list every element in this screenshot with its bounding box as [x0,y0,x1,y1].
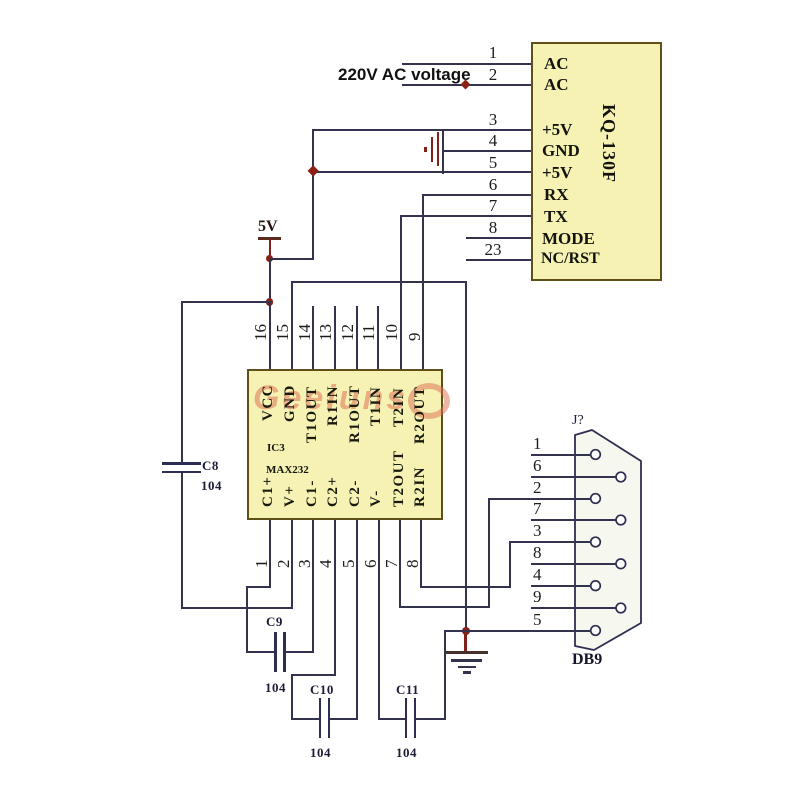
wire T2OUT riser to DB9 pin2 row [488,498,490,609]
pin label GND (pin 4) [542,142,580,159]
IC label R1IN (pin13, rotated) [326,385,341,426]
pin number 3 (MAX232 bottom, rotated) [296,560,313,569]
wire to C10 left plate [291,718,319,720]
wire MAX232 pin 13 stub [334,306,336,369]
label KQ-130F (rotated) [600,104,618,183]
pin label RX (pin 6) [544,186,569,203]
label C11 [396,683,419,696]
ground symbol bar 1 [445,651,488,654]
wire R2IN riser to DB9 pin3 row [509,541,511,588]
IC label C1- (pin3, rotated) [305,479,320,507]
junction diamond on AC pin 2 wire [461,80,471,90]
pin number 6 (MAX232 bottom, rotated) [362,560,379,569]
wire C11 right plate to riser [416,718,446,720]
IC part number MAX232 [266,465,309,476]
wire GND rail horizontal (pin15 to right) [291,281,467,283]
pin label AC (pin 2) [544,76,569,93]
DB9 pin number 5 [533,611,542,628]
pin label TX (pin 7) [544,208,568,225]
capacitor C11 left plate [405,698,408,738]
wire C11 riser up to ground node [444,631,446,720]
capacitor C10 left plate [319,698,322,738]
wire KQ pin 1 (AC) [402,63,531,65]
capacitor C11 right plate [414,698,417,738]
wire DB9 pin 8 stub [531,563,616,565]
pin number 13 (MAX232, rotated) [317,324,334,341]
IC label R1OUT (pin12, rotated) [348,385,363,443]
pin number 5 (KQ-130F) [482,154,504,171]
IC label VCC (pin16, rotated) [261,384,276,421]
label C10 [310,683,334,696]
pin number 7 (MAX232 bottom, rotated) [383,560,400,569]
IC reference IC3 [267,443,285,454]
ground symbol stem [464,630,466,651]
IC label C2+ (pin4, rotated) [326,476,341,507]
pin number 5 (MAX232 bottom, rotated) [340,560,357,569]
pin label +5V (pin 3) [542,121,572,138]
wire 5V node to loop (horizontal) [269,258,313,260]
wire DB9 pin 4 stub [531,585,591,587]
label C10 value 104 [310,746,331,759]
wire C10 right plate to pin 5 [330,718,357,720]
IC label GND (pin15, rotated) [283,384,298,422]
wire KQ pin 4 (GND) [442,150,531,152]
wire DB9 pin 3 stub (joins R2IN riser) [509,541,592,543]
ground symbol (rotated, on GND pin 4) bar medium [437,132,439,166]
wire MAX232 pin 14 stub [312,306,314,369]
IC U1 MAX232 body [247,369,444,520]
wire MAX232 pin 8 down (R2IN) [420,520,422,588]
connector J? DB9 shell and pin circles [568,424,650,656]
pin number 4 (MAX232 bottom, rotated) [317,560,334,569]
wire DB9 pin 1 stub [531,454,591,456]
DB9 pin number 2 [533,479,542,496]
IC U2 KQ-130F module body [531,42,662,281]
connector name DB9 [572,652,602,668]
DB9 pin number 9 [533,588,542,605]
label C8 [202,459,219,472]
wire pin4 down to C10 row [291,674,293,720]
wire KQ pin 8 (MODE) [466,237,531,239]
wire DB9 pin 9 stub [531,607,616,609]
wire C9 right plate to pin 3 [286,651,314,653]
power symbol 5V text [258,219,278,235]
pin number 12 (MAX232, rotated) [339,324,356,341]
pin number 6 (KQ-130F) [482,176,504,193]
pin number 2 (MAX232 bottom, rotated) [275,560,292,569]
wire MAX232 pin 16 stub up [269,301,271,369]
power symbol 5V underline bar [258,237,281,240]
wire DB9 pin 2 stub (joins T2OUT riser) [488,498,591,500]
IC label C2- (pin5, rotated) [348,479,363,507]
wire DB9 pin 5 stub (ground row) [444,630,591,632]
watermark red ring [408,383,450,419]
pin label NC/RST (pin 23) [541,251,600,267]
wire T2OUT run right [399,606,491,608]
wire DB9 pin 7 stub [531,519,616,521]
wire MAX232 pin 12 stub [356,306,358,369]
DB9 pin number 7 [533,500,542,517]
watermark red text [253,381,408,415]
wire MAX232 pin 11 stub [377,306,379,369]
wire TX net (KQ pin7 to MAX232 pin 10) [400,215,402,369]
label C11 value 104 [396,746,417,759]
pin number 14 (MAX232, rotated) [296,324,313,341]
IC label R2OUT (pin9, rotated) [413,386,428,444]
wire MAX232 pin 7 down (T2OUT) [399,520,401,609]
wire 5V node down to VCC branch [269,258,271,303]
pin number 16 (MAX232, rotated) [252,324,269,341]
pin number 11 (MAX232, rotated) [360,325,377,341]
wire GND rail vertical (x=466) [465,281,467,632]
pin number 4 (KQ-130F) [482,132,504,149]
capacitor C9 right plate [283,632,286,672]
wire KQ pin 7 (TX) [400,215,532,217]
IC label V+ (pin2, rotated) [283,485,298,507]
wire C8 branch lower [181,473,183,609]
ground symbol bar 2 [451,659,483,662]
pin label +5V (pin 5) [542,164,572,181]
IC label T2OUT (pin7, rotated) [392,449,407,507]
pin number 8 (MAX232 bottom, rotated) [404,560,421,569]
wire pin1 down to C9 row [246,586,248,653]
text 220V AC voltage [338,66,471,83]
wire MAX232 pin 6 down (V-) [378,520,380,720]
wire right edge of +5V loop / ground bar (x=443) [442,129,444,175]
connector reference J? [572,414,584,428]
pin number 1 (MAX232 bottom, rotated) [253,560,270,569]
pin number 10 (MAX232, rotated) [383,324,400,341]
pin label AC (pin 1) [544,55,569,72]
pin number 2 (KQ-130F) [482,66,504,83]
pin number 23 (KQ-130F) [482,241,504,258]
junction dot at VCC branch node [266,298,273,305]
wire VCC branch to C8 (horizontal) [181,301,271,303]
wire KQ pin 3 (+5V) [312,129,531,131]
wire pin1 jog left [246,586,271,588]
IC label R2IN (pin8, rotated) [413,466,428,507]
DB9 pin number 6 [533,457,542,474]
wire MAX232 pin 3 down [312,520,314,653]
pin label MODE (pin 8) [542,230,595,247]
wire to C9 left plate [246,651,274,653]
pin number 7 (KQ-130F) [482,197,504,214]
capacitor C8 top plate [162,462,201,465]
label C9 [266,615,283,628]
IC label T1IN (pin11, rotated) [369,386,384,426]
junction dot at ground node [462,627,470,635]
pin number 15 (MAX232, rotated) [274,324,291,341]
wire MAX232 pin 4 down (C2+) [334,520,336,677]
ground symbol (rotated) tip dot [424,147,427,152]
IC label T2IN (pin10, rotated) [392,387,407,427]
wire left edge of +5V loop (x=313) [312,129,314,260]
IC label C1+ (pin1, rotated) [261,476,276,507]
wire RX net (KQ pin6 to MAX232 pin 9) [422,194,424,370]
wire MAX232 pin 1 down [269,520,271,589]
wire KQ pin 2 (AC) [402,84,531,86]
capacitor C8 bottom plate [162,471,201,474]
power symbol 5V stem [269,239,271,259]
wire KQ pin 5 (+5V) [312,171,531,173]
ground symbol (rotated) bar small [431,137,433,162]
wire C8 branch upper [181,301,183,463]
pin number 3 (KQ-130F) [482,111,504,128]
DB9 pin number 3 [533,522,542,539]
DB9 pin number 4 [533,566,542,583]
capacitor C9 left plate [274,632,277,672]
junction dot at 5V node [266,255,273,262]
DB9 pin number 8 [533,544,542,561]
wire MAX232 pin 15 stub up to GND rail [291,281,293,369]
pin number 8 (KQ-130F) [482,219,504,236]
junction diamond at +5V loop corner [307,165,319,177]
capacitor C10 right plate [328,698,331,738]
wire pin4 jog left [291,674,336,676]
ground symbol bar 4 [463,671,471,673]
wire MAX232 pin 2 down (V+) [291,520,293,610]
wire KQ pin 23 (NC/RST) [466,259,531,261]
DB9 pin number 1 [533,435,542,452]
wire MAX232 pin 5 down (C2-) [356,520,358,720]
wire pin6 to C11 left plate [378,718,405,720]
wire R2IN run right [420,586,511,588]
wire KQ pin 6 (RX) [422,194,531,196]
label C9 value 104 [265,681,286,694]
pin number 9 (MAX232, rotated) [406,333,423,342]
wire DB9 pin 6 stub [531,476,616,478]
IC label V- (pin6, rotated) [369,489,384,507]
ground symbol bar 3 [458,666,476,669]
wire V+ row to C8 branch [181,607,293,609]
pin number 1 (KQ-130F) [482,44,504,61]
IC label T1OUT (pin14, rotated) [305,385,320,443]
label C8 value 104 [201,479,222,492]
